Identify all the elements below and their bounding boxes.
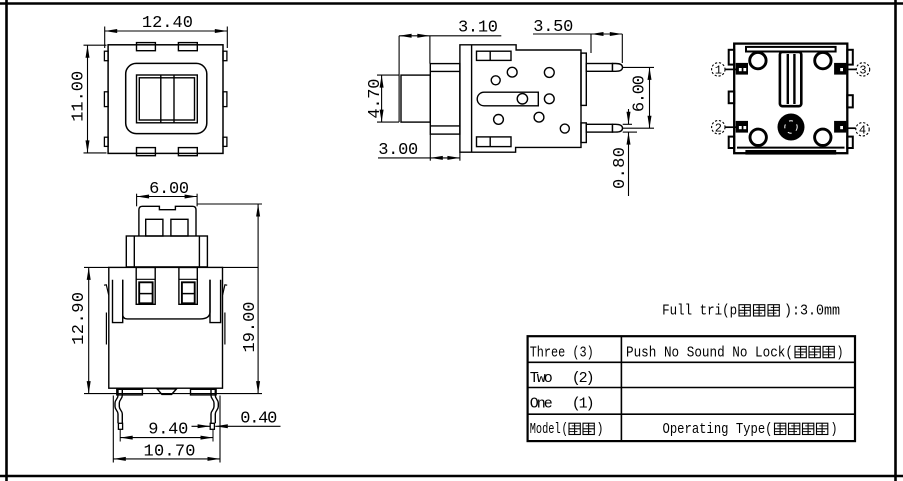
svg-text:One (1): One (1)	[530, 396, 595, 413]
top tab	[477, 51, 512, 60]
svg-text:): )	[837, 344, 844, 361]
clip right	[223, 285, 228, 295]
svg-text:19.00: 19.00	[241, 302, 260, 353]
dim 12.40	[105, 27, 228, 49]
rounded boss	[126, 63, 207, 133]
dim 0.80	[623, 109, 637, 196]
dim 9.40	[120, 437, 213, 439]
svg-text:10.70: 10.70	[144, 443, 196, 462]
center slot	[780, 52, 801, 106]
bottom edge tab 2	[178, 148, 197, 156]
side wall right	[210, 280, 221, 323]
hole circle B	[491, 76, 500, 85]
bottom edge tab 1	[137, 148, 156, 156]
corner hole top-left	[750, 52, 766, 68]
top tab divider	[489, 51, 491, 60]
dim 6.00 top	[137, 194, 198, 207]
center boss (black disc)	[778, 114, 805, 141]
svg-text:3.50: 3.50	[533, 18, 573, 37]
svg-text:Full tri(p: Full tri(p	[662, 303, 737, 320]
foot left	[117, 389, 143, 395]
dim 12.90	[88, 267, 90, 393]
clip left	[104, 285, 109, 295]
center bump	[157, 389, 176, 395]
svg-text:0.80: 0.80	[611, 147, 630, 189]
svg-text:6.00: 6.00	[149, 180, 189, 199]
slot with rounded left end	[477, 92, 538, 106]
right side tab bottom	[223, 137, 227, 146]
window divider left	[160, 75, 162, 123]
button window left	[146, 219, 163, 236]
flange inner line right	[198, 236, 200, 267]
leg left	[115, 390, 118, 424]
top edge tab 2	[178, 43, 197, 51]
button cap with top notch	[139, 206, 196, 236]
balloon 4	[846, 123, 869, 136]
svg-text:4: 4	[859, 124, 866, 138]
hole circle D (in slot)	[517, 94, 527, 104]
foot right	[191, 389, 217, 395]
button window inner	[139, 78, 194, 120]
right side tab top	[223, 51, 227, 61]
right tab top	[847, 50, 853, 65]
svg-text:Operating Type(: Operating Type(	[663, 421, 773, 438]
button window outer	[137, 75, 198, 123]
svg-text:3: 3	[859, 64, 866, 78]
bottom cover band	[737, 147, 845, 149]
terminal 3 pad	[835, 63, 846, 74]
balloon 2	[712, 121, 736, 134]
right rib lower	[581, 123, 586, 143]
dim 3.10	[399, 36, 501, 122]
svg-text:): )	[831, 421, 838, 438]
svg-text:4.70: 4.70	[366, 79, 385, 119]
dim 3.50	[533, 34, 622, 63]
switch body outline (top view)	[108, 45, 223, 154]
left tab bottom	[729, 137, 735, 148]
dim 6.00	[623, 67, 654, 128]
terminal block right outer	[179, 267, 197, 304]
upper pin	[586, 64, 622, 72]
body	[109, 267, 223, 388]
terminal block right inner	[182, 282, 195, 303]
terminal 4 pad	[835, 121, 846, 132]
svg-text:(: (	[562, 421, 569, 438]
top cover band	[746, 47, 836, 52]
flange	[126, 236, 207, 267]
flange ridge bottom	[430, 125, 460, 127]
lower pin	[586, 124, 622, 132]
right side tab middle	[223, 92, 227, 107]
terminal 2 pad	[736, 121, 747, 132]
right rib upper	[581, 53, 586, 105]
button window right	[171, 219, 188, 236]
table frame	[528, 336, 855, 441]
dim 10.70	[113, 396, 220, 463]
dim 11.00	[84, 45, 107, 153]
dim 0.40	[192, 425, 281, 427]
leg right	[215, 390, 218, 424]
mount plate divider	[471, 45, 473, 152]
plunger flange	[430, 64, 460, 135]
left side tab bottom	[104, 137, 108, 146]
dim 3.00	[378, 134, 460, 161]
svg-text:12.90: 12.90	[70, 292, 89, 345]
baseline ext	[84, 393, 262, 395]
svg-text:0.40: 0.40	[240, 409, 277, 428]
hole circle A	[507, 67, 517, 77]
corner hole top-right	[815, 52, 831, 68]
corner hole bottom-right	[815, 129, 831, 145]
flange ridge top	[430, 70, 460, 72]
svg-text:2: 2	[715, 121, 722, 135]
body outline	[460, 45, 581, 152]
hole circle E	[544, 94, 554, 104]
svg-text:11.00: 11.00	[69, 71, 88, 122]
dim 19.00	[257, 204, 259, 394]
svg-text:Three (3): Three (3)	[530, 344, 594, 361]
window divider right	[173, 75, 175, 123]
left tab middle	[729, 92, 735, 104]
bottom tab divider	[489, 137, 491, 147]
svg-text:Two (2): Two (2)	[530, 370, 595, 387]
bottom tab	[477, 137, 512, 147]
cavity bottom (U)	[123, 280, 210, 319]
left side tab top	[104, 51, 108, 61]
right tab middle	[847, 95, 853, 107]
svg-text:1: 1	[715, 64, 722, 78]
svg-text:6.00: 6.00	[631, 75, 650, 112]
svg-text:): )	[597, 421, 604, 438]
hole circle F	[494, 115, 504, 125]
corner hole bottom-left	[750, 129, 766, 145]
top edge tab 1	[137, 43, 156, 51]
left tab top	[729, 50, 735, 65]
left side tab middle	[104, 92, 108, 107]
hole circle H	[560, 124, 569, 133]
svg-text:9.40: 9.40	[148, 420, 188, 439]
svg-text:3.10: 3.10	[458, 19, 498, 38]
svg-text:3.00: 3.00	[378, 141, 418, 160]
svg-text:Push No Sound No Lock(: Push No Sound No Lock(	[626, 344, 793, 361]
hole circle C	[544, 68, 554, 78]
terminal block left outer	[136, 267, 155, 304]
right tab bottom	[847, 137, 853, 148]
dim 19.00 top ext	[197, 203, 262, 205]
svg-text:12.40: 12.40	[142, 14, 193, 33]
terminal block left inner	[139, 282, 152, 303]
terminal 1 pad	[736, 63, 747, 74]
hole circle G	[534, 112, 544, 122]
side wall left	[113, 280, 123, 323]
balloon 1	[712, 63, 736, 76]
body outline (bottom view)	[734, 44, 847, 154]
plunger tip	[401, 75, 430, 122]
svg-text:):3.0mm: ):3.0mm	[784, 303, 840, 320]
balloon 3	[846, 63, 869, 76]
dim 4.70	[377, 75, 399, 122]
flange inner line left	[133, 236, 135, 267]
body top ext	[84, 266, 109, 268]
svg-text:Model: Model	[530, 421, 561, 438]
